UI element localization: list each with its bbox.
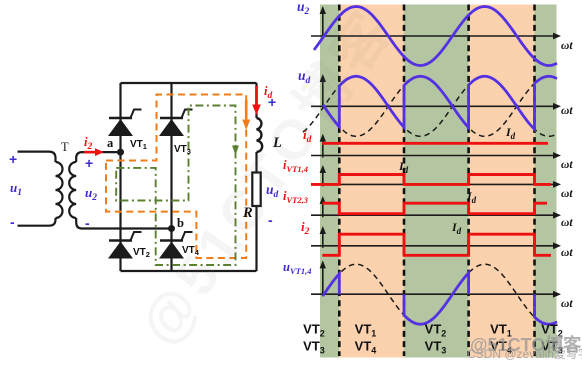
vertical axis of ivt14 row <box>322 170 324 186</box>
wire bottom dc rail <box>121 270 257 272</box>
svg-text:-: - <box>85 215 90 231</box>
svg-text:+: + <box>85 155 93 171</box>
background band green 3 (VT2,VT3 interval) <box>535 5 557 358</box>
thyristor VT3 <box>160 117 183 120</box>
winding primary <box>56 162 63 218</box>
svg-text:ωt: ωt <box>561 159 573 171</box>
svg-text:ωt: ωt <box>561 105 573 117</box>
watermark 51CTO <box>470 331 581 357</box>
svg-text:i2: i2 <box>84 135 92 152</box>
background band green 1 <box>320 5 339 358</box>
i2 square wave <box>322 234 551 255</box>
inductor L winding <box>257 118 263 152</box>
horizontal axis of ivt23 row <box>311 214 555 216</box>
watermark faint diagonal <box>117 0 409 359</box>
svg-text:u1: u1 <box>10 180 22 198</box>
vertical axis of uvt row <box>322 265 324 296</box>
wire secondary bottom to node b <box>76 218 171 229</box>
horizontal axis of uvt row <box>311 293 555 295</box>
uVT1,4 dashed sine <box>324 264 557 324</box>
node b junction dot <box>168 225 175 232</box>
svg-text:i2: i2 <box>301 219 310 237</box>
firing instant dashed line 1 <box>338 5 341 357</box>
current arrow i2 <box>84 151 97 154</box>
svg-text:VT1: VT1 <box>130 139 147 151</box>
thyristor VT2 <box>109 239 132 242</box>
winding secondary <box>69 162 76 218</box>
svg-text:T: T <box>61 140 69 154</box>
horizontal axis of id row <box>311 155 555 157</box>
background band orange 2 (VT1,VT4 interval) <box>469 5 535 358</box>
current arrow id <box>255 86 258 106</box>
wire resistor to bottom rail <box>255 206 257 271</box>
wire top dc rail <box>121 82 257 84</box>
vertical axis of ivt23 row <box>322 201 324 217</box>
svg-text:+: + <box>9 151 17 167</box>
svg-text:a: a <box>107 136 114 150</box>
uVT1,4 thyristor voltage waveform <box>323 273 557 324</box>
firing instant dashed line 3 <box>467 5 470 357</box>
green dash-dot current loop (VT2,VT3 conduction path) <box>116 106 235 266</box>
svg-text:VT2: VT2 <box>133 247 150 259</box>
svg-text:ωt: ωt <box>561 298 573 310</box>
horizontal axis of ivt14 row <box>311 183 555 185</box>
ud dashed complement curve <box>303 83 557 136</box>
u2 sine waveform <box>314 7 557 66</box>
wire secondary top to node a <box>76 152 120 162</box>
svg-text:ωt: ωt <box>561 247 573 259</box>
svg-text:ωt: ωt <box>561 188 573 200</box>
thyristor VT1 <box>109 117 132 120</box>
node a junction dot <box>117 149 124 156</box>
svg-text:uVT1,4: uVT1,4 <box>283 260 311 276</box>
wire right bridge column <box>170 83 172 271</box>
thyristor VT4 <box>160 239 183 242</box>
svg-text:u2: u2 <box>297 0 310 17</box>
orange loop arrowhead <box>242 120 250 131</box>
iVT2,3 square pulse waveform <box>322 203 547 214</box>
svg-text:u2: u2 <box>85 185 97 203</box>
svg-text:ωt: ωt <box>561 217 573 229</box>
background band green 2 (VT2,VT3 interval) <box>404 5 469 358</box>
vertical axis of id row <box>322 139 324 158</box>
horizontal axis of i2 row <box>311 245 555 247</box>
svg-text:-: - <box>10 214 15 230</box>
firing instant dashed line 4 <box>533 5 536 357</box>
watermark CSDN <box>467 345 582 362</box>
svg-text:ωt: ωt <box>561 40 573 52</box>
wire left bridge column <box>119 83 121 271</box>
firing instant dashed line 2 <box>403 5 406 357</box>
ud rectified output waveform <box>323 76 557 129</box>
horizontal axis of u2 row <box>311 35 555 37</box>
wire primary top <box>18 152 56 162</box>
id constant current line <box>322 142 548 145</box>
wire load branch top <box>255 83 257 118</box>
wire inductor to resistor <box>255 152 257 173</box>
orange dashed current loop (VT1,VT4 conduction path) <box>106 95 246 259</box>
green loop arrowhead <box>232 146 239 156</box>
vertical axis of i2 row <box>322 231 324 248</box>
vertical axis of ud row <box>322 79 324 108</box>
wire primary bottom <box>18 218 56 226</box>
background band orange 1 (VT1,VT4 interval) <box>339 5 404 358</box>
vertical axis of u2 row <box>322 11 324 38</box>
horizontal axis of ud row <box>311 105 555 107</box>
resistor R body <box>252 173 260 207</box>
iVT1,4 square pulse waveform <box>311 175 551 185</box>
